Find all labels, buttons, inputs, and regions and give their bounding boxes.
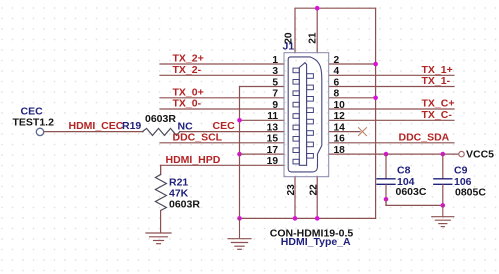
testpoint TEST1.2 xyxy=(36,128,43,135)
svg-text:4: 4 xyxy=(334,66,340,77)
svg-text:DDC_SDA: DDC_SDA xyxy=(399,131,450,143)
VCC5 terminal circle xyxy=(459,151,464,156)
wire testpoint to R19 xyxy=(44,131,143,133)
svg-text:C8: C8 xyxy=(397,165,411,177)
wire pin11 stub xyxy=(240,119,285,121)
wire top rail pin20 to shield xyxy=(295,8,376,53)
svg-text:23: 23 xyxy=(286,184,297,196)
wire shield vertical left xyxy=(239,87,241,219)
svg-text:VCC5: VCC5 xyxy=(466,149,494,161)
svg-text:21: 21 xyxy=(308,32,319,44)
ground under C9 xyxy=(432,205,454,226)
wire cap bottoms xyxy=(386,199,443,205)
svg-text:1: 1 xyxy=(272,55,278,66)
capacitor C8 xyxy=(377,154,395,205)
svg-text:9: 9 xyxy=(272,100,278,111)
svg-text:22: 22 xyxy=(308,184,319,196)
junction rail ground xyxy=(237,216,242,221)
svg-text:TX_2+: TX_2+ xyxy=(173,53,204,65)
wire pin18 VCC5 xyxy=(329,153,459,155)
svg-text:17: 17 xyxy=(267,145,279,156)
svg-text:0603C: 0603C xyxy=(396,186,427,198)
wire pin15 DDC_SCL xyxy=(160,142,284,144)
resistor R19 xyxy=(143,128,180,135)
svg-text:7: 7 xyxy=(272,89,278,100)
junction pin17 shield xyxy=(237,152,242,157)
wire pin2 to shield xyxy=(329,63,376,65)
svg-text:12: 12 xyxy=(334,111,346,122)
wire pin17 stub xyxy=(240,153,285,155)
svg-text:20: 20 xyxy=(283,32,294,44)
wire shield vertical right xyxy=(375,8,377,218)
wire pin9 TX_0- xyxy=(160,108,284,110)
HDMI shell symbol xyxy=(288,57,322,172)
wire pin5 stub xyxy=(240,86,285,88)
svg-text:HDMI_Type_A: HDMI_Type_A xyxy=(281,236,351,248)
svg-text:DDC_SCL: DDC_SCL xyxy=(173,131,223,143)
svg-text:19: 19 xyxy=(267,156,279,167)
svg-text:13: 13 xyxy=(267,123,279,134)
no-connect X pin14 xyxy=(359,128,367,136)
wire pin3 TX_2- xyxy=(160,74,284,76)
svg-text:TX_1+: TX_1+ xyxy=(422,64,453,76)
svg-text:TEST1.2: TEST1.2 xyxy=(13,116,55,128)
svg-text:R19: R19 xyxy=(122,120,141,132)
wire pin6 TX_1- xyxy=(329,86,454,88)
svg-text:3: 3 xyxy=(272,66,278,77)
svg-text:HDMI_CEC: HDMI_CEC xyxy=(69,120,124,132)
svg-text:10: 10 xyxy=(334,100,346,111)
wire pin4 TX_1+ xyxy=(329,74,454,76)
ground under rail xyxy=(228,218,251,249)
wire R19 to pin13 CEC xyxy=(180,131,284,133)
svg-text:NC: NC xyxy=(178,121,194,133)
svg-text:5: 5 xyxy=(272,77,278,88)
junction C9 top xyxy=(441,152,446,157)
svg-text:TX_0-: TX_0- xyxy=(173,98,202,110)
capacitor C9 xyxy=(434,154,452,205)
svg-text:TX_0+: TX_0+ xyxy=(173,86,204,98)
svg-text:TX_C+: TX_C+ xyxy=(422,98,455,110)
wire pin8 to shield xyxy=(329,97,376,99)
connector J1 body box xyxy=(284,53,329,177)
wire pin12 TX_C- xyxy=(329,119,454,121)
junction top rail xyxy=(315,6,320,11)
svg-text:14: 14 xyxy=(334,123,346,134)
HDMI blade xyxy=(299,63,306,166)
svg-text:2: 2 xyxy=(334,55,340,66)
wire pin7 TX_0+ xyxy=(160,97,284,99)
svg-text:0603R: 0603R xyxy=(145,113,176,125)
svg-text:TX_1-: TX_1- xyxy=(422,75,451,87)
junction pin22 rail xyxy=(315,216,320,221)
svg-text:0603R: 0603R xyxy=(169,199,200,211)
svg-text:6: 6 xyxy=(334,77,340,88)
svg-text:HDMI_HPD: HDMI_HPD xyxy=(166,154,221,166)
wire pin22 xyxy=(316,177,318,219)
HDMI contacts right xyxy=(307,74,314,158)
junction C8 bottom xyxy=(384,197,389,202)
svg-text:15: 15 xyxy=(267,134,279,145)
junction pin23 rail xyxy=(293,216,298,221)
junction C8 top xyxy=(384,152,389,157)
svg-text:18: 18 xyxy=(334,145,346,156)
wire pin10 TX_C+ xyxy=(329,108,454,110)
junction pin8 shield xyxy=(373,96,378,101)
svg-text:TX_2-: TX_2- xyxy=(173,64,202,76)
svg-text:8: 8 xyxy=(334,89,340,100)
svg-text:TX_C-: TX_C- xyxy=(422,109,453,121)
svg-text:16: 16 xyxy=(334,134,346,145)
junction pin2 shield xyxy=(373,62,378,67)
svg-text:11: 11 xyxy=(267,111,278,122)
svg-text:C9: C9 xyxy=(454,165,468,177)
ground under R21 xyxy=(146,233,171,244)
wire ground rail xyxy=(240,217,376,219)
svg-text:CEC: CEC xyxy=(213,120,236,132)
svg-text:0805C: 0805C xyxy=(455,187,486,199)
junction pin11 shield xyxy=(237,118,242,123)
junction C9 bottom xyxy=(441,203,446,208)
wire pin14 stub xyxy=(329,131,360,133)
wire pin21 vertical xyxy=(316,8,318,53)
resistor R21 xyxy=(155,165,166,232)
wire pin19 HDMI_HPD xyxy=(161,165,284,174)
wire pin16 DDC_SDA xyxy=(329,142,454,144)
wire pin1 TX_2+ xyxy=(160,63,284,65)
HDMI contacts left xyxy=(293,68,299,164)
wire pin23 xyxy=(294,177,296,219)
